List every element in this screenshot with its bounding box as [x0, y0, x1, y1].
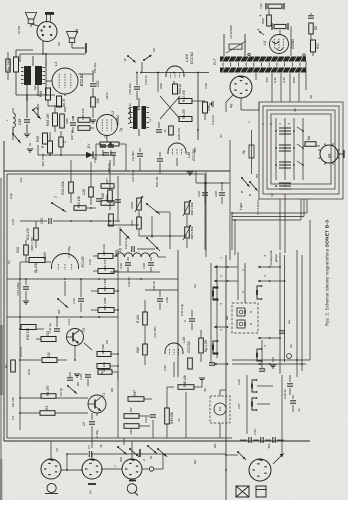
svg-text:10k: 10k — [96, 98, 100, 104]
svg-text:C41 50n: C41 50n — [153, 326, 157, 338]
svg-text:R23 150k: R23 150k — [103, 278, 107, 291]
svg-text:C17 50μ: C17 50μ — [67, 246, 71, 258]
svg-text:DY: DY — [87, 143, 91, 148]
svg-text:R29: R29 — [105, 195, 109, 201]
svg-text:R21 100k: R21 100k — [103, 297, 107, 310]
svg-text:C50 50μ: C50 50μ — [93, 62, 97, 73]
svg-text:R38 47k: R38 47k — [81, 108, 85, 120]
svg-text:Wg: Wg — [229, 103, 233, 108]
svg-text:1n: 1n — [297, 408, 301, 412]
svg-text:R24 220k: R24 220k — [61, 181, 65, 195]
svg-text:M: M — [327, 154, 332, 158]
svg-text:R27: R27 — [105, 178, 109, 184]
svg-text:R49 40k: R49 40k — [170, 412, 174, 424]
svg-text:C29: C29 — [197, 191, 201, 197]
svg-text:C20 8μ: C20 8μ — [127, 277, 131, 287]
svg-text:R35 1k: R35 1k — [152, 281, 156, 291]
svg-text:C31 0,5μ: C31 0,5μ — [180, 304, 184, 317]
svg-text:R15 15k: R15 15k — [26, 328, 30, 340]
svg-text:2: 2 — [269, 123, 273, 126]
svg-text:L4/I: L4/I — [182, 337, 186, 343]
svg-text:L1: L1 — [53, 62, 58, 66]
svg-text:C22 0,2μ: C22 0,2μ — [124, 237, 128, 250]
svg-text:L4/I: L4/I — [187, 152, 191, 158]
svg-text:głowic: głowic — [274, 253, 278, 262]
svg-text:R36: R36 — [65, 118, 69, 124]
svg-text:Rj: Rj — [99, 444, 103, 447]
svg-text:C6 5μ: C6 5μ — [59, 388, 63, 396]
svg-text:ECC82: ECC82 — [190, 51, 194, 64]
svg-text:ECL82: ECL82 — [79, 73, 84, 86]
svg-text:R24 47k: R24 47k — [103, 259, 107, 271]
svg-text:+10V: +10V — [129, 406, 133, 414]
svg-text:R 22k: R 22k — [136, 314, 140, 323]
svg-text:R50: R50 — [261, 18, 265, 24]
svg-text:C26: C26 — [82, 189, 86, 195]
svg-text:S1: S1 — [293, 108, 297, 112]
svg-text:R39: R39 — [159, 83, 163, 89]
svg-text:R42: R42 — [36, 136, 40, 142]
svg-text:Sm: Sm — [193, 459, 197, 464]
svg-text:Cg 50n: Cg 50n — [131, 151, 135, 161]
svg-text:R10: R10 — [27, 369, 31, 375]
svg-text:Przełącznik: Przełącznik — [269, 250, 273, 266]
svg-text:ECC82: ECC82 — [187, 341, 191, 353]
svg-text:R48 40k: R48 40k — [183, 375, 187, 387]
svg-text:C2: C2 — [82, 422, 86, 426]
svg-text:+: + — [258, 14, 263, 17]
svg-text:Ra 47k: Ra 47k — [182, 109, 186, 120]
svg-text:R45a 27k: R45a 27k — [177, 127, 181, 140]
svg-text:R20: R20 — [16, 247, 20, 253]
svg-text:R37 1k: R37 1k — [70, 130, 74, 140]
svg-text:R51: R51 — [316, 43, 320, 49]
svg-text:+: + — [256, 28, 261, 31]
svg-text:C42: C42 — [163, 365, 167, 371]
svg-text:R2: R2 — [314, 26, 318, 30]
svg-text:2: 2 — [219, 275, 223, 278]
svg-text:-10V: -10V — [129, 428, 133, 435]
svg-text:C 20μ: C 20μ — [95, 430, 99, 438]
svg-text:Tr-T: Tr-T — [213, 58, 217, 65]
svg-text:117127220: 117127220 — [229, 25, 233, 39]
svg-text:Pu: Pu — [7, 260, 11, 264]
svg-text:C52: C52 — [259, 3, 263, 9]
svg-text:R5 10k: R5 10k — [102, 362, 106, 372]
svg-text:L5: L5 — [262, 40, 267, 45]
svg-text:R44: R44 — [39, 91, 43, 97]
svg-text:C48 5n: C48 5n — [283, 389, 287, 399]
svg-text:C19 100μ: C19 100μ — [16, 282, 20, 295]
svg-text:5,5 4,5cm/s: 5,5 4,5cm/s — [256, 199, 260, 215]
svg-text:Prz: Prz — [218, 406, 222, 411]
svg-text:1k: 1k — [163, 129, 167, 133]
svg-text:Cm: Cm — [19, 177, 23, 182]
svg-text:Wb: Wb — [213, 443, 217, 448]
svg-text:C40: C40 — [119, 263, 123, 269]
svg-text:R1: R1 — [4, 364, 8, 368]
svg-text:Łącz.: Łącz. — [239, 202, 243, 210]
svg-text:C46 2n: C46 2n — [107, 163, 111, 173]
svg-text:W1: W1 — [255, 173, 259, 178]
svg-text:Tg: Tg — [119, 128, 123, 132]
svg-text:Sil: Sil — [309, 95, 313, 99]
svg-text:C10: C10 — [79, 374, 83, 380]
svg-text:EM84: EM84 — [116, 115, 120, 124]
svg-text:4,7k: 4,7k — [62, 98, 66, 105]
svg-text:R41 470k: R41 470k — [41, 153, 45, 166]
svg-text:R11: R11 — [47, 352, 51, 358]
svg-text:Gn: Gn — [289, 344, 293, 348]
svg-text:0,5μ: 0,5μ — [9, 193, 13, 199]
svg-text:C34 1n: C34 1n — [144, 75, 148, 85]
svg-text:C18: C18 — [11, 219, 15, 225]
svg-text:R20 1,5M: R20 1,5M — [30, 237, 34, 251]
svg-text:R47a: R47a — [105, 92, 109, 99]
svg-text:Gu: Gu — [225, 316, 229, 320]
svg-text:220: 220 — [193, 147, 197, 153]
svg-text:C46: C46 — [237, 379, 241, 385]
svg-text:R47: R47 — [133, 390, 137, 396]
svg-text:Gz: Gz — [193, 284, 197, 288]
svg-text:R4 470: R4 470 — [46, 386, 50, 397]
svg-text:C11 5μ: C11 5μ — [48, 323, 52, 333]
svg-text:50n: 50n — [267, 443, 271, 448]
svg-text:C47: C47 — [237, 403, 241, 409]
svg-text:Rd: Rd — [307, 136, 311, 140]
svg-text:C3: C3 — [11, 416, 15, 420]
svg-text:C30: C30 — [165, 297, 169, 303]
svg-text:C44: C44 — [144, 417, 148, 423]
svg-text:C27 0,1μ: C27 0,1μ — [131, 170, 135, 183]
svg-text:C15: C15 — [72, 298, 76, 304]
svg-text:Tg2: Tg2 — [33, 85, 37, 91]
svg-text:R28 150k: R28 150k — [190, 226, 194, 239]
svg-text:R25 10k: R25 10k — [102, 244, 106, 256]
svg-text:C28: C28 — [214, 191, 218, 197]
svg-text:C49: C49 — [18, 119, 22, 125]
svg-text:Pi: Pi — [89, 490, 93, 493]
svg-text:R9 68k: R9 68k — [101, 344, 105, 354]
svg-text:Gł: Gł — [55, 448, 59, 451]
svg-text:ECL82: ECL82 — [81, 257, 85, 268]
svg-text:R161: R161 — [130, 201, 134, 209]
svg-text:Lz: Lz — [148, 118, 152, 122]
svg-text:T1: T1 — [102, 393, 106, 397]
svg-text:Rp 10k: Rp 10k — [34, 263, 38, 274]
svg-text:R8: R8 — [110, 388, 114, 392]
svg-text:Sk: Sk — [203, 388, 207, 392]
svg-text:R30 150k: R30 150k — [190, 202, 194, 215]
svg-text:C13: C13 — [67, 319, 71, 325]
svg-text:R40: R40 — [136, 347, 140, 353]
svg-text:L4/II: L4/II — [185, 53, 189, 61]
svg-text:C51: C51 — [25, 95, 29, 101]
svg-text:C38: C38 — [204, 83, 208, 89]
svg-text:R46: R46 — [207, 105, 211, 111]
svg-text:L3: L3 — [111, 111, 115, 115]
svg-text:250: 250 — [265, 77, 269, 83]
svg-text:2: 2 — [142, 459, 146, 462]
svg-text:Lg: Lg — [118, 248, 122, 252]
svg-text:C9: C9 — [105, 340, 109, 344]
svg-text:R45 1W: R45 1W — [46, 113, 50, 126]
svg-text:A: A — [249, 323, 253, 326]
svg-text:W2: W2 — [57, 309, 61, 314]
svg-text:250V: 250V — [292, 76, 296, 85]
svg-text:2: 2 — [263, 345, 267, 348]
svg-text:R14 1k: R14 1k — [19, 347, 23, 357]
svg-text:S2: S2 — [270, 193, 274, 197]
svg-text:R22 15k: R22 15k — [77, 196, 81, 208]
svg-text:Zd: Zd — [152, 48, 156, 53]
svg-text:R6: R6 — [76, 382, 80, 386]
svg-text:C50: C50 — [96, 81, 100, 88]
svg-text:C39: C39 — [142, 263, 146, 269]
svg-text:Gu: Gu — [287, 320, 291, 324]
svg-text:C16: C16 — [88, 259, 92, 265]
svg-text:Wł: Wł — [57, 42, 61, 46]
svg-text:C45: C45 — [93, 157, 97, 163]
svg-text:C33 2n: C33 2n — [211, 115, 215, 125]
svg-text:C43: C43 — [253, 429, 257, 435]
svg-text:C1: C1 — [87, 445, 91, 449]
svg-text:Gł 5Ω: Gł 5Ω — [17, 25, 21, 34]
svg-text:R34 1M: R34 1M — [155, 176, 159, 187]
svg-text:R42 47k: R42 47k — [182, 90, 186, 102]
svg-text:C36 22n: C36 22n — [128, 83, 132, 95]
svg-text:R2 10k: R2 10k — [11, 397, 15, 407]
svg-text:Rg 1,3M: Rg 1,3M — [204, 340, 208, 352]
svg-text:R3: R3 — [45, 406, 49, 410]
svg-text:5n: 5n — [219, 134, 223, 138]
